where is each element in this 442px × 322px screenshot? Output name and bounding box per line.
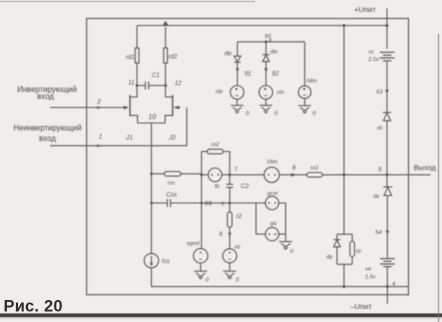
- node 12 dot: [164, 84, 167, 87]
- svg-text:5: 5: [378, 167, 382, 174]
- node 3 junction dot at x344: [343, 24, 346, 27]
- svg-text:Css: Css: [166, 191, 178, 198]
- ground under ga: [279, 241, 292, 243]
- ground under vb: [223, 270, 236, 272]
- wire node 10 vertical: [150, 123, 152, 253]
- node dot main-344: [343, 173, 346, 176]
- svg-text:Неинвертирующий: Неинвертирующий: [13, 124, 81, 133]
- capacitor Css: [151, 202, 229, 204]
- wire gcm/ga right side: [279, 203, 286, 242]
- node 6 dot: [228, 202, 231, 205]
- ground under vIn: [260, 104, 273, 106]
- svg-text:ro2: ro2: [211, 142, 220, 148]
- svg-text:de: de: [373, 194, 379, 200]
- svg-text:2: 2: [96, 98, 101, 105]
- wire negative rail node 4: [151, 286, 408, 288]
- diode dp branch: [337, 234, 352, 240]
- arrow on input 1: [97, 144, 103, 147]
- arrow node 53: [385, 90, 389, 94]
- diode de: [386, 175, 388, 187]
- node 4 dot at x344: [343, 285, 346, 288]
- resistor rd2: [165, 27, 167, 48]
- node 5 dot: [386, 173, 389, 176]
- svg-text:Рис. 20: Рис. 20: [4, 298, 63, 316]
- node dot 99-css: [200, 202, 203, 205]
- resistor ro1: [307, 173, 322, 178]
- arrow node 8: [291, 173, 297, 177]
- source hlim: [304, 42, 306, 86]
- svg-text:1.5v: 1.5v: [365, 275, 377, 281]
- wire +supply vertical x387: [386, 26, 388, 175]
- svg-text:vIp: vIp: [215, 89, 222, 95]
- wire Vlim to ro1 node 8: [279, 174, 307, 176]
- svg-text:rd2: rd2: [168, 55, 177, 61]
- svg-text:ga: ga: [270, 221, 276, 227]
- svg-text:92: 92: [272, 71, 279, 78]
- svg-text:rss: rss: [167, 181, 175, 187]
- svg-text:rd1: rd1: [126, 55, 135, 61]
- current source Iss: [144, 253, 158, 267]
- svg-text:vIn: vIn: [277, 90, 284, 96]
- battery vc: [380, 51, 395, 53]
- svg-text:egnd: egnd: [187, 241, 200, 247]
- transistor J1: [130, 86, 137, 98]
- svg-text:Vlim: Vlim: [267, 160, 278, 166]
- diode dc: [383, 112, 391, 114]
- node 91 dot: [236, 68, 239, 71]
- svg-text:90: 90: [264, 34, 271, 40]
- dp/rp bottom merge: [337, 264, 352, 286]
- svg-text:Iss: Iss: [162, 258, 170, 265]
- svg-text:1: 1: [99, 134, 103, 141]
- svg-text:9: 9: [219, 231, 223, 238]
- wire +Upit stub: [386, 8, 388, 25]
- node dot 10-rss: [150, 172, 153, 175]
- svg-text:10: 10: [148, 114, 156, 121]
- source Vlim: [264, 167, 279, 182]
- wire node 99 vertical: [201, 152, 203, 249]
- svg-text:8: 8: [292, 165, 296, 172]
- source gcm: [265, 196, 278, 209]
- svg-text:dp: dp: [326, 255, 332, 261]
- svg-text:вход: вход: [37, 92, 54, 101]
- ground under hlim: [298, 105, 311, 107]
- svg-text:54: 54: [375, 230, 381, 236]
- resistor r2: [229, 203, 231, 212]
- source ga: [255, 203, 257, 234]
- resistor rd1: [136, 26, 138, 49]
- wire inverting input node 2: [50, 107, 123, 109]
- enclosure box: [87, 19, 409, 295]
- svg-text:J1: J1: [125, 134, 133, 141]
- svg-text:ro1: ro1: [311, 166, 319, 172]
- svg-text:+Uпит: +Uпит: [354, 5, 376, 14]
- node 11 dot: [136, 84, 139, 87]
- svg-text:dc: dc: [377, 125, 383, 131]
- wire top supply rail node 3: [137, 25, 387, 27]
- arrow rd2 top: [163, 21, 168, 26]
- wire vertical x344: [343, 26, 345, 235]
- source fb: [202, 174, 209, 176]
- source vIn: [259, 86, 273, 100]
- svg-text:dln: dln: [270, 50, 277, 56]
- diode dlp: [236, 42, 238, 56]
- capacitor C1: [137, 85, 166, 87]
- resistor rp branch: [351, 234, 353, 241]
- svg-text:91: 91: [244, 71, 251, 78]
- scan artifact right edge: [438, 34, 439, 322]
- transistor J2 gate arrow: [175, 107, 181, 109]
- wire node 90 rail: [237, 41, 304, 43]
- battery ve: [380, 258, 395, 260]
- svg-text:hlim: hlim: [307, 78, 318, 84]
- svg-text:вход: вход: [39, 134, 56, 143]
- svg-text:ve: ve: [365, 267, 371, 273]
- wire J2 gate feed: [186, 108, 188, 146]
- svg-text:11: 11: [128, 81, 134, 87]
- node dot 99-main: [200, 173, 203, 176]
- capacitor C2: [229, 175, 231, 184]
- svg-text:12: 12: [175, 81, 182, 87]
- svg-text:dlp: dlp: [224, 51, 231, 57]
- svg-text:2.5v: 2.5v: [367, 57, 380, 63]
- wire source coupling node 10: [138, 122, 166, 124]
- node 4 dot at x387: [386, 285, 389, 288]
- svg-text:–Uпит: –Uпит: [350, 302, 372, 311]
- node 90 tick: [269, 38, 271, 42]
- svg-text:vb: vb: [234, 244, 240, 250]
- transistor J2: [166, 86, 173, 98]
- svg-text:rp: rp: [356, 249, 361, 255]
- source egnd: [193, 249, 207, 263]
- wire node 6 to gcm/ga: [230, 202, 266, 204]
- source vb: [223, 249, 237, 263]
- svg-text:fb: fb: [215, 184, 220, 190]
- svg-text:4: 4: [392, 282, 395, 288]
- svg-text:C2: C2: [241, 183, 249, 190]
- node 7 dot: [228, 173, 231, 176]
- arrow on input 2: [97, 106, 103, 109]
- svg-text:vc: vc: [368, 50, 374, 56]
- svg-text:gcm: gcm: [267, 191, 278, 197]
- svg-text:C1: C1: [152, 73, 160, 79]
- node 92 dot: [265, 68, 268, 71]
- node 90 dot: [265, 40, 268, 43]
- resistor ro2: [202, 151, 208, 153]
- arrow r2 bottom: [228, 233, 232, 237]
- node 3 junction dot: [386, 24, 389, 27]
- svg-text:J2: J2: [168, 134, 176, 141]
- scan artifact bottom band: [0, 313, 442, 317]
- diode dln: [265, 42, 267, 55]
- node dot 10-Css: [150, 202, 153, 205]
- wire noninverting input node 1: [50, 145, 187, 147]
- arrow node 54: [386, 231, 390, 235]
- wire -Upit stub: [386, 287, 388, 304]
- svg-text:99: 99: [204, 201, 212, 208]
- svg-text:53: 53: [376, 89, 383, 95]
- scan artifact top edge: [0, 1, 255, 2]
- ground under vIp: [231, 104, 244, 106]
- source vIp: [230, 86, 244, 100]
- ground under egnd: [194, 270, 207, 272]
- svg-text:r2: r2: [236, 213, 242, 220]
- resistor rss: [151, 173, 164, 175]
- svg-text:Выход: Выход: [414, 163, 437, 172]
- transistor J1 gate arrow: [123, 107, 129, 109]
